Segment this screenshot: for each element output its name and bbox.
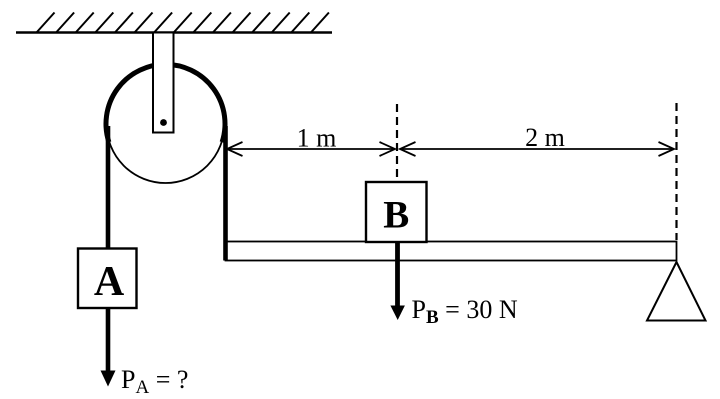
pulley axle [160,119,167,126]
dashed line at support [675,103,677,240]
rope arc over pulley [106,64,225,142]
block B [366,182,427,242]
dimension 2m [400,142,674,156]
svg-text:A: A [94,259,125,305]
beam [226,242,677,261]
rope left [106,126,111,249]
block A [78,249,137,309]
arrow A [106,309,111,373]
pulley wheel [107,65,225,183]
svg-text:2 m: 2 m [525,123,565,152]
svg-text:PA = ?: PA = ? [121,365,188,398]
arrow B [395,242,400,307]
dashed line at B [396,104,398,181]
support triangle [647,262,706,321]
pulley bracket [153,33,174,133]
rope right [223,126,228,261]
svg-text:B: B [383,194,409,237]
svg-text:1 m: 1 m [297,124,337,153]
dimension 1m [227,142,395,156]
ceiling hatching [37,13,329,33]
ceiling line [16,31,332,33]
